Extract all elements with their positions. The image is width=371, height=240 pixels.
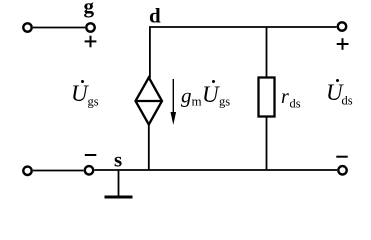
svg-text:gs: gs (88, 95, 99, 109)
svg-text:ds: ds (290, 97, 301, 111)
svg-text:U: U (202, 82, 220, 107)
svg-text:gs: gs (219, 95, 230, 109)
svg-text:U: U (71, 81, 89, 106)
svg-text:g: g (84, 0, 95, 18)
svg-text:s: s (114, 148, 122, 172)
svg-text:d: d (149, 4, 161, 28)
svg-text:m: m (192, 94, 202, 109)
svg-text:r: r (281, 86, 289, 108)
svg-text:g: g (181, 84, 192, 108)
svg-text:ds: ds (342, 94, 353, 108)
